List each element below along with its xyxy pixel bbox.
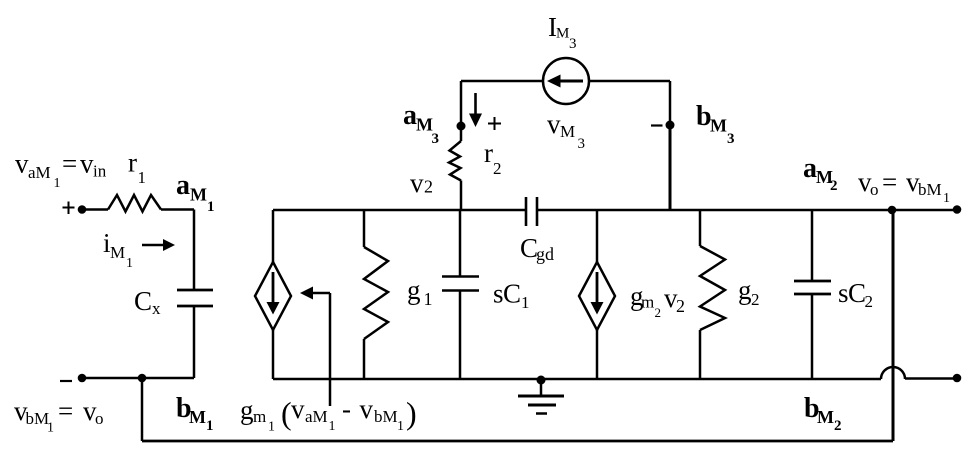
svg-text:1: 1	[424, 289, 433, 309]
svg-text:2: 2	[865, 292, 874, 311]
svg-text:x: x	[152, 299, 161, 318]
svg-text:s: s	[493, 279, 504, 309]
svg-text:o: o	[95, 409, 104, 428]
svg-text:1: 1	[54, 176, 61, 191]
svg-text:2: 2	[655, 305, 662, 320]
svg-text:2: 2	[676, 296, 685, 316]
svg-text:2: 2	[834, 418, 842, 434]
svg-text:in: in	[93, 162, 107, 181]
svg-text:M: M	[416, 115, 433, 135]
svg-text:3: 3	[432, 131, 440, 147]
svg-text:v: v	[410, 168, 424, 198]
svg-text:3: 3	[569, 36, 577, 52]
svg-text:1: 1	[943, 191, 950, 206]
svg-text:2: 2	[493, 159, 502, 178]
svg-text:2: 2	[830, 178, 838, 194]
svg-text:M: M	[817, 407, 834, 427]
svg-text:=: =	[882, 167, 897, 197]
svg-text:s: s	[838, 278, 849, 308]
svg-text:M: M	[560, 122, 575, 141]
svg-text:1: 1	[207, 199, 215, 215]
svg-text:=: =	[62, 149, 77, 179]
svg-text:aM: aM	[305, 407, 328, 426]
svg-text:a: a	[403, 100, 417, 131]
svg-text:): )	[406, 395, 417, 431]
svg-text:1: 1	[268, 420, 275, 435]
svg-text:1: 1	[47, 421, 54, 436]
svg-text:g: g	[240, 395, 254, 425]
svg-text:2: 2	[424, 177, 433, 197]
svg-text:M: M	[190, 185, 207, 205]
svg-text:v: v	[360, 394, 374, 424]
svg-text:o: o	[870, 180, 879, 199]
svg-text:r: r	[484, 138, 493, 168]
svg-text:aM: aM	[28, 163, 51, 182]
svg-text:C: C	[134, 286, 152, 316]
svg-text:v: v	[80, 149, 94, 179]
svg-text:r: r	[128, 148, 137, 178]
svg-text:bM: bM	[374, 407, 398, 426]
svg-text:2: 2	[751, 290, 760, 309]
svg-text:a: a	[803, 153, 817, 184]
svg-text:3: 3	[578, 136, 586, 152]
svg-text:a: a	[176, 170, 190, 201]
svg-text:C: C	[848, 278, 866, 308]
svg-text:bM: bM	[26, 409, 50, 428]
svg-text:-: -	[342, 394, 351, 424]
svg-text:v: v	[291, 394, 305, 424]
svg-text:g: g	[407, 275, 421, 305]
svg-text:gd: gd	[536, 244, 554, 264]
svg-text:M: M	[110, 243, 125, 262]
svg-text:M: M	[556, 26, 569, 42]
svg-text:m: m	[253, 407, 266, 426]
svg-text:1: 1	[397, 419, 404, 434]
svg-text:M: M	[710, 116, 727, 136]
svg-text:1: 1	[126, 256, 133, 271]
svg-text:3: 3	[727, 131, 735, 147]
svg-text:g: g	[738, 275, 752, 305]
svg-text:1: 1	[329, 419, 336, 434]
svg-text:1: 1	[521, 293, 530, 312]
svg-text:m: m	[641, 293, 654, 312]
svg-text:1: 1	[138, 168, 147, 187]
svg-text:bM: bM	[918, 180, 942, 199]
svg-text:C: C	[503, 279, 521, 309]
svg-text:v: v	[547, 109, 561, 139]
svg-text:=: =	[58, 396, 73, 426]
svg-text:v: v	[15, 149, 29, 179]
svg-text:M: M	[189, 407, 206, 427]
svg-text:1: 1	[206, 418, 214, 434]
